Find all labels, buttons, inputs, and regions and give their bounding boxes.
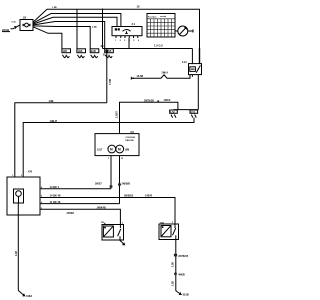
- svg-text:14B-R: 14B-R: [50, 119, 58, 123]
- svg-text:central: central: [160, 15, 167, 18]
- svg-text:FAN SW: FAN SW: [126, 139, 134, 142]
- svg-text:14 BK 48: 14 BK 48: [50, 194, 62, 198]
- svg-text:15M: 15M: [125, 148, 130, 151]
- svg-text:14 BK 4: 14 BK 4: [50, 185, 60, 189]
- svg-text:1.0B/Y: 1.0B/Y: [116, 111, 118, 118]
- svg-text:5.1b: 5.1b: [12, 22, 17, 24]
- svg-text:7B: 7B: [101, 222, 104, 224]
- svg-text:14B-R: 14B-R: [145, 195, 152, 198]
- svg-text:1AB: 1AB: [78, 50, 83, 53]
- svg-text:Fusebox: Fusebox: [148, 17, 157, 19]
- svg-text:2N7B/15: 2N7B/15: [178, 255, 188, 258]
- svg-text:1/3: 1/3: [23, 16, 27, 20]
- svg-text:0.75B: 0.75B: [110, 79, 112, 85]
- svg-text:313B: 313B: [183, 293, 189, 297]
- svg-text:M: M: [110, 147, 113, 151]
- svg-text:2N7B/2B: 2N7B/2B: [144, 100, 154, 103]
- svg-text:2N6.4: 2N6.4: [162, 72, 169, 75]
- svg-text:14BK4B: 14BK4B: [97, 207, 106, 210]
- svg-text:3.1: 3.1: [132, 23, 136, 26]
- svg-text:479: 479: [28, 170, 33, 173]
- svg-text:1.51: 1.51: [191, 112, 196, 114]
- svg-text:4N0B: 4N0B: [178, 273, 185, 276]
- svg-text:73B: 73B: [160, 222, 164, 224]
- svg-text:2.5B: 2.5B: [92, 27, 97, 29]
- svg-text:15: 15: [137, 5, 141, 9]
- svg-text:1.0 G.5: 1.0 G.5: [154, 44, 163, 48]
- svg-text:1.52: 1.52: [170, 112, 175, 114]
- svg-text:COOLING: COOLING: [126, 137, 136, 139]
- svg-text:2N/B/1B: 2N/B/1B: [124, 195, 133, 198]
- svg-text:2AB: 2AB: [91, 50, 96, 53]
- svg-text:2N5B/B: 2N5B/B: [122, 182, 131, 185]
- svg-text:11B: 11B: [63, 50, 68, 53]
- svg-text:M: M: [118, 147, 121, 151]
- svg-text:1517: 1517: [97, 148, 103, 151]
- svg-text:2.21: 2.21: [182, 61, 187, 64]
- svg-text:1.0B: 1.0B: [173, 281, 175, 286]
- svg-text:1.5B: 1.5B: [52, 7, 57, 9]
- svg-text:1.0B: 1.0B: [173, 262, 175, 267]
- svg-text:2N/S7: 2N/S7: [95, 182, 102, 185]
- svg-text:14B-R: 14B-R: [164, 99, 171, 102]
- svg-text:2N7E8: 2N7E8: [67, 212, 75, 215]
- svg-text:11 BK 48: 11 BK 48: [50, 200, 61, 204]
- svg-text:13.5B: 13.5B: [137, 75, 144, 78]
- svg-text:14B: 14B: [49, 99, 54, 103]
- svg-text:1.1B: 1.1B: [16, 251, 18, 256]
- svg-text:318A: 318A: [26, 294, 32, 298]
